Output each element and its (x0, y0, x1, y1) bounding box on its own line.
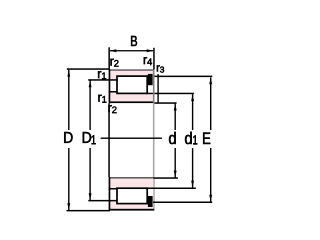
d1 top leader (roller bottom extended right) (147, 93, 194, 95)
bottom section: gray top edge (bore surface) (109, 177, 154, 179)
label B (131, 36, 137, 46)
E bottom leader (153, 202, 212, 204)
top section: outer+inner ring pink body (109, 70, 153, 102)
D1 middle leader line (101, 138, 162, 139)
top section: white gap below washer (right band) (148, 85, 153, 93)
label r2 top (r) (110, 59, 113, 66)
label D1 (D) (83, 132, 91, 143)
d dimension line lower segment (175, 148, 176, 178)
right connector between sections (light gray) (153, 103, 155, 177)
d1 up arrowhead (191, 94, 194, 101)
label r1 lower-left (subscript 1) (102, 96, 106, 103)
label r2 lower (subscript 2) (112, 106, 116, 113)
D bottom leader (extends left) (67, 210, 111, 212)
label D (64, 132, 72, 143)
label d1 (d) (185, 132, 192, 144)
d dimension line upper segment (175, 104, 176, 130)
D1 dimension line lower segment (89, 148, 90, 200)
label r4 (subscript 4) (147, 59, 152, 66)
E dimension line lower segment (210, 148, 211, 202)
label r2 lower (r) (108, 105, 111, 112)
rib washer (black, top section) (148, 74, 153, 85)
bottom section: white gap above washer (right band) (148, 189, 153, 197)
label r3 (subscript 3) (160, 67, 164, 73)
D top leader (OD extended left) (67, 68, 110, 70)
E dimension line upper segment (210, 77, 211, 130)
rib washer (black, bottom section) (148, 196, 153, 207)
top section: black bottom edge (bore) (109, 101, 154, 103)
D1 dimension line upper segment (89, 81, 90, 131)
label D1 (subscript 1) (92, 135, 96, 144)
bottom section: white gap (left band) (110, 190, 116, 200)
divider L2' (109, 188, 118, 190)
d1 dimension line upper segment (192, 94, 193, 130)
B left arrowhead (109, 49, 116, 52)
D up arrowhead (67, 70, 70, 77)
left connector between sections (inner-ring face) (108, 103, 110, 177)
label r1 upper-left (r) (98, 71, 101, 78)
D1 down arrowhead (89, 193, 92, 200)
bottom section: pink body (109, 178, 153, 210)
E down arrowhead (209, 195, 212, 202)
d bottom leader (right of section) (154, 177, 178, 179)
label r4 (r) (144, 57, 147, 64)
divider L1' + D1 bottom leader (88, 200, 117, 202)
right edge of bottom section (gray) (153, 177, 155, 211)
d top leader (bore extended right) (154, 102, 177, 104)
D down arrowhead (67, 203, 70, 210)
bottom section: left edge (109, 177, 111, 210)
B dimension line (110, 50, 153, 51)
roller (bottom section) (117, 188, 147, 203)
label r2 top (subscript 2) (114, 60, 118, 67)
D dimension line lower segment (68, 148, 69, 210)
d down arrowhead (174, 171, 177, 178)
B right extension line (153, 48, 155, 70)
label r1 lower-left (r) (98, 95, 101, 102)
divider L1 (rib bore) + D1 top leader (88, 79, 117, 81)
right edge of top section (gray) (153, 69, 155, 103)
label d (169, 132, 176, 144)
B left extension line (108, 47, 110, 69)
D dimension line upper segment (68, 70, 69, 130)
top section: left edge (109, 69, 111, 103)
d1 bottom leader (147, 188, 196, 190)
label E (203, 133, 210, 144)
d1 dimension line lower segment (192, 148, 193, 188)
bottom section: black bottom edge (OD) (109, 209, 154, 211)
label r1 upper-left (subscript 1) (102, 73, 106, 80)
top section: white gap between ribs (left band) (110, 81, 116, 91)
r3 leader line (vertical, to bore corner) (157, 74, 158, 104)
d up arrowhead (174, 104, 177, 111)
label d1 (subscript 1) (193, 135, 197, 144)
label r3 (r) (157, 65, 160, 71)
roller (top section) (117, 76, 147, 93)
divider L2 (109, 91, 118, 93)
E top leader (outer raceway extended right) (153, 76, 212, 78)
B right arrowhead (147, 49, 154, 52)
top section: gray top edge (OD surface) (109, 69, 154, 71)
D1 up arrowhead (89, 80, 92, 87)
E up arrowhead (209, 77, 212, 84)
d1 down arrowhead (191, 181, 194, 188)
